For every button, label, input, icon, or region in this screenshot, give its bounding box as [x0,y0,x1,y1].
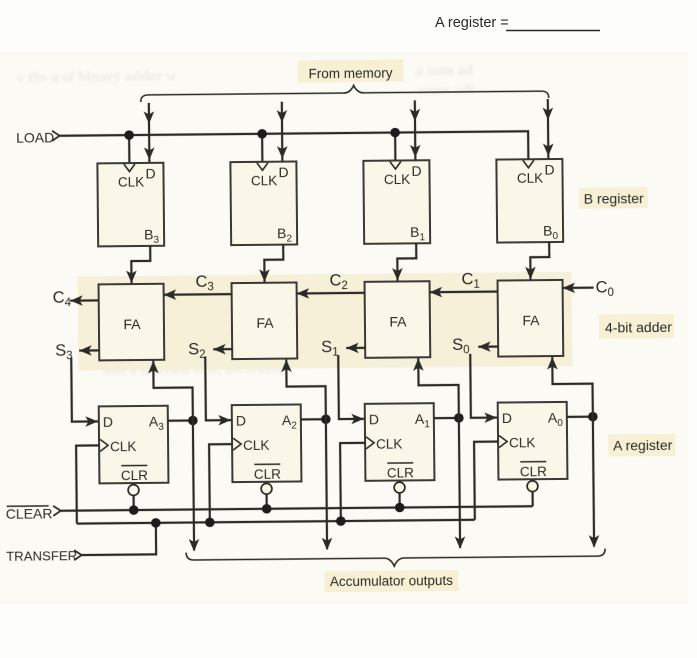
junction: LOAD / B3 CLK [124,130,134,140]
wire: B2 output to FA2 [259,245,284,282]
wire: carry C3 [164,289,232,300]
svg-text:CLK: CLK [243,438,269,453]
wire: sum S0 output [478,341,498,352]
label: 4-bit adder [599,314,674,339]
wire: A1 feedback to FA1 input [413,358,459,418]
flip-flop A3 [99,406,169,484]
svg-text:4-bit adder: 4-bit adder [605,319,672,336]
wire: LOAD branch to CLK of B3 [128,135,130,163]
input TRANSFER [6,548,82,564]
svg-text:srtne adt: srtne adt [418,82,475,99]
clr bubble A3 [128,485,139,511]
wire: A0 Q output [567,416,593,418]
input LOAD [16,129,60,145]
svg-text:CLK: CLK [376,436,402,451]
svg-text:A register =: A register = [435,15,509,31]
wire: S1 to D of A1 [338,355,364,425]
svg-text:D: D [236,412,246,428]
label: A register = (worksheet prompt) [435,15,600,31]
wire: S2 to D of A2 [205,356,231,426]
full adder FA3 [99,284,165,361]
wire: accumulator output A0 [588,417,600,548]
svg-text:FA: FA [123,316,141,332]
label C2 [329,271,348,292]
svg-text:D: D [103,414,113,430]
wire: A3 Q output [168,419,193,421]
junction: LOAD / B2 CLK [257,129,267,139]
flip-flop A1 [365,403,435,481]
svg-text:TRANSFER: TRANSFER [6,548,77,564]
svg-text:CLK: CLK [517,171,543,186]
flip-flop B1 [363,160,430,244]
svg-text:FA: FA [256,315,274,331]
junction: CLEAR / A2 CLR [262,504,272,514]
wire: accumulator output A3 [188,420,200,551]
svg-text:CLK: CLK [384,172,410,187]
svg-text:CLR: CLR [387,465,414,480]
svg-text:D: D [502,410,512,426]
junction: LOAD / B1 CLK [390,128,400,138]
junction: TRANSFER feed node [151,518,161,528]
wire: memory data into D of B1 [409,100,420,160]
wire: A2 feedback to FA2 input [281,359,326,419]
svg-text:CLK: CLK [509,435,535,450]
wire: A1 Q output [434,417,459,419]
svg-text:CLK: CLK [110,439,136,454]
svg-text:CLR: CLR [520,464,547,479]
flip-flop B2 [230,161,297,245]
wire: A2 Q output [301,418,326,420]
wire: TRANSFER rail (CLK bus) [77,520,475,524]
junction: A2 output node [321,414,331,424]
label S3 [55,342,73,363]
label C4 [53,289,72,310]
junction: A1 output node [454,413,464,423]
svg-text:LOAD: LOAD [16,129,54,145]
wire: LOAD branch to CLK of B2 [261,134,263,162]
svg-text:CLEAR: CLEAR [6,505,53,521]
wire: sum S3 output [79,345,99,356]
full adder FA2 [232,282,298,359]
wire: CLK of A1 to TRANSFER rail [340,443,366,521]
svg-text:Accumulator outputs: Accumulator outputs [330,573,453,589]
svg-text:D: D [411,163,421,179]
svg-text:From memory: From memory [308,66,392,82]
svg-text:e ths a of binary adder w: e ths a of binary adder w [17,69,176,87]
4-bit adder highlight band [77,272,572,371]
label: B register [579,187,648,209]
svg-text:CLR: CLR [254,467,281,482]
wire: S0 to D of A0 [470,354,497,424]
wire: CLK of A3 to TRANSFER rail [76,445,100,523]
clr bubble A1 [394,482,405,508]
wire: S3 to D of A3 [71,357,98,427]
wire: sum S1 output [346,343,365,354]
wire: TRANSFER feed [81,523,156,555]
full adder FA1 [365,281,431,358]
junction: TRANSFER / A1 CLK [336,516,346,526]
label C0 [596,278,615,299]
wire: memory data into D of B0 [542,99,553,159]
junction: CLEAR / A3 CLR [129,505,139,515]
label C1 [461,270,480,291]
brace: accumulator outputs group [186,549,605,569]
label S2 [188,340,206,361]
wire: CLK of A0 to TRANSFER rail [474,442,499,520]
svg-text:FA: FA [522,312,540,328]
label: From memory [297,59,403,82]
svg-text:D: D [544,162,554,178]
flip-flop B0 [496,159,563,243]
wire: CLK of A2 to TRANSFER rail [209,444,233,522]
label: Accumulator outputs [324,570,458,592]
flip-flop A0 [498,402,568,480]
wire: CLEAR rail [61,506,533,511]
wire: memory data into D of B2 [277,102,288,162]
svg-text:CLR: CLR [121,468,148,483]
svg-text:D: D [278,164,288,180]
wire: LOAD bus to B0 CLK [60,131,529,163]
wire: carry C1 [430,286,498,297]
wire: carry C2 [297,288,365,299]
svg-text:CLK: CLK [251,173,277,188]
junction: A3 output node [188,416,198,426]
wire: A3 feedback to FA3 input [148,360,193,420]
wire: B1 output to FA1 [392,243,417,280]
wire: accumulator output A2 [321,419,333,550]
label S0 [452,336,470,357]
wire: sum S2 output [213,344,232,355]
svg-text:FA: FA [389,313,407,329]
brace: from memory group [141,84,549,102]
label: A register [608,434,675,457]
junction: A0 output node [588,412,598,422]
wire: accumulator output A1 [454,418,466,549]
wire: carry C4 output [70,295,99,306]
svg-text:D: D [369,411,379,427]
wire: A0 feedback to FA0 input [547,357,593,417]
label S1 [321,338,339,359]
svg-text:D: D [145,165,155,181]
clr bubble A2 [261,483,272,509]
junction: CLEAR / A1 CLR [395,503,405,513]
wire: B3 output to FA3 [126,246,151,283]
wire: memory data into D of B3 [144,103,155,163]
svg-text:B register: B register [584,190,644,207]
svg-text:CLK: CLK [118,174,144,189]
svg-text:a sum ad: a sum ad [415,63,473,80]
clr bubble A0 [527,481,538,507]
svg-text:A register: A register [613,437,673,454]
wire: B0 output to FA0 [525,242,550,279]
flip-flop B3 [97,163,164,247]
flip-flop A2 [232,404,302,482]
input CLEAR (active low) [6,505,61,522]
wire: LOAD branch to CLK of B1 [394,133,396,161]
label C3 [195,273,214,294]
junction: TRANSFER / A2 CLK [205,517,215,527]
full adder FA0 [498,280,564,357]
wire: carry C0 input [563,282,594,293]
